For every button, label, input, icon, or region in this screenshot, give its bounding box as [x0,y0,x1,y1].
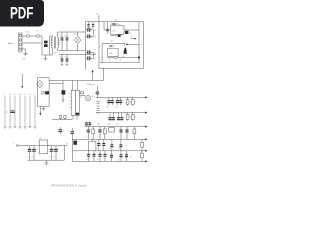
svg-text:10n: 10n [107,124,110,126]
wire mid rail b [49,83,63,85]
svg-text:24v: 24v [96,14,99,16]
svg-text:d1: d1 [86,159,88,161]
wire [73,115,77,119]
arrow tag [126,43,129,45]
regulator U4 [108,48,119,61]
wire inner ground rail [100,61,140,63]
svg-text:+12: +12 [130,36,133,38]
wire [49,36,51,55]
svg-text:C5: C5 [94,30,96,32]
svg-text:C7: C7 [94,52,96,54]
wire left vertical B [101,44,103,63]
svg-text:B2: B2 [109,59,111,61]
resistor R7 [80,92,84,94]
capacitor C5 [86,28,97,32]
svg-text:d3: d3 [118,159,120,161]
svg-text:c2: c2 [32,157,34,159]
PDF badge [0,0,44,27]
relay coil [45,91,49,94]
wire feed to B [138,22,140,63]
svg-text:Tx: Tx [24,94,26,96]
capacitor C22 [117,113,120,121]
capacitor rowCD e [120,151,123,162]
svg-text:+5: +5 [140,44,142,46]
earth ground [22,49,28,61]
wire rail out2 [96,112,145,114]
svg-text:C1: C1 [59,36,61,38]
capacitor rowBC b [102,139,105,150]
connector J1 [8,33,22,52]
capacitor rowBC c [110,139,113,150]
wire input [104,22,111,30]
wire output B low [107,57,139,59]
ground [42,106,46,111]
svg-text:24V: 24V [111,40,114,42]
capacitor C28 [50,146,54,161]
wire rail outC [72,150,145,152]
left bus arrow [21,74,23,88]
resistor R1 [42,92,45,94]
IC U1 [69,81,81,116]
arrow [145,96,147,98]
wire top rail [58,31,86,33]
svg-text:10n: 10n [116,124,119,126]
svg-text:4x: 4x [67,143,69,145]
svg-text:b3: b3 [118,148,120,150]
IC U3 [39,138,48,153]
bridge rectifier B1 [74,32,81,51]
regulator section outer box [99,22,144,69]
svg-text:d2: d2 [97,159,99,161]
svg-text:2N Relay 4s: 2N Relay 4s [87,84,95,86]
relay box K1 [38,78,50,107]
capacitor C10 [92,22,94,29]
resistor R8 [126,113,132,121]
resistor R9 [131,113,137,121]
wire bus [5,96,35,126]
resistor rowAB g [133,127,136,140]
label pin row [4,93,35,96]
buzzer BZ1 [80,95,94,101]
wire rail B [102,44,125,47]
capacitor C16 [107,97,110,105]
capacitor C3 [59,54,63,65]
regulator U2 [111,26,125,35]
capacitor C15 [6,111,15,114]
diode D3 [109,45,115,47]
capacitor C7 [86,50,97,54]
svg-text:b1: b1 [96,148,98,150]
capacitor rowAB e [119,127,122,140]
resistor R3 [64,116,66,120]
capacitor rowBC d [119,139,122,150]
capacitor C19 [119,97,122,105]
wire mid rail [49,80,103,82]
capacitor rowCD a [87,151,90,162]
capacitor rowCD d [104,151,107,162]
capacitor rowCD f [125,151,128,162]
resistor R4 [126,97,132,105]
arrow [145,112,147,114]
wire bottom rail [52,119,72,121]
svg-text:S1: S1 [37,30,39,32]
bus terminations [4,126,36,128]
svg-text:c4: c4 [54,157,56,159]
capacitor C13b [124,48,126,51]
net arrow up [92,70,94,81]
wire right vertical rail [85,22,87,70]
shield dashes [97,102,100,114]
arrow [145,138,147,140]
capacitor C30 feed [71,128,75,140]
svg-text:C4: C4 [64,56,66,58]
resistor rowAB d [103,127,106,140]
IC U5 [89,139,96,150]
transformer core [55,37,56,49]
wire [41,36,43,55]
svg-text:MPX/4010dP 8W C Inputs: MPX/4010dP 8W C Inputs [51,183,86,187]
svg-text:C8: C8 [94,58,96,60]
varistor RV1 [44,41,48,44]
capacitor C6 [86,30,97,39]
X-capacitor CX1 [44,44,48,47]
resistor R2 [59,116,61,120]
svg-text:10n: 10n [115,106,118,108]
wire top rail to box [86,21,100,23]
capacitor rowBC a [97,139,100,150]
capacitor C24 [59,127,66,134]
svg-text:b2: b2 [120,59,122,61]
capacitor C12 [125,31,132,35]
transformer TR1 secondary [58,32,60,51]
svg-text:5v: 5v [29,94,31,96]
capacitor C18 [116,97,119,105]
resistor rowCD g [141,151,144,162]
capacitor C4 [64,54,68,65]
svg-text:U3: U3 [40,138,42,140]
svg-text:7812: 7812 [112,31,116,33]
switch S1 [36,35,42,37]
svg-text:nc: nc [34,94,36,96]
capacitor C14 [92,86,99,98]
svg-text:Mains: Mains [8,43,13,45]
svg-text:b2: b2 [109,148,111,150]
capacitor C29 [54,146,58,161]
bridge rectifier B2 [36,80,43,88]
wire rail outD [72,160,145,162]
transformer TR1 primary [50,36,53,55]
capacitor C27 [32,146,36,161]
wire rail outA [84,126,145,128]
net arrow down [39,106,41,115]
capacitor C11 [106,22,108,35]
resistor rowAB b [92,127,95,140]
capacitor rowAB c [98,127,101,140]
wire [102,68,104,80]
capacitor C13 [123,50,127,58]
capacitor C17 [111,97,114,105]
svg-text:c3: c3 [49,157,51,159]
wire mid rail [58,50,86,52]
resistor rowBC e [141,139,144,150]
capacitor C2 [64,32,68,51]
capacitor C21 [112,113,115,121]
capacitor rowCD e2 [110,151,113,162]
svg-text:b4: b4 [125,145,127,147]
svg-text:SP: SP [92,96,94,98]
wire ground rail [59,53,96,55]
capacitor C9 [87,22,89,29]
wire bottom return [28,146,65,161]
svg-text:Cb: Cb [6,112,8,114]
capacitor C20 [108,113,111,121]
svg-text:C6: C6 [94,36,96,38]
resistor R6 inline [109,128,115,132]
ground [44,160,48,165]
svg-text:7805: 7805 [109,53,113,55]
svg-text:C2: C2 [64,36,66,38]
wire rail out1 [96,96,145,98]
fuse F1 [22,30,39,37]
svg-text:230v: 230v [54,53,58,55]
capacitor rowCD c [99,151,102,162]
arrow [145,160,147,162]
svg-text:10n: 10n [106,106,109,108]
svg-text:C3: C3 [59,56,61,58]
diode D2 [111,23,121,26]
wire [98,15,100,22]
svg-text:470: 470 [129,33,132,35]
svg-text:Vc: Vc [13,143,15,145]
svg-text:c1: c1 [27,157,29,159]
transistor Q1 [61,81,65,103]
arrow [145,126,147,128]
wire rail outB [72,138,145,140]
svg-text:r1: r1 [86,136,87,138]
wire left vertical [71,139,73,161]
svg-text:Gn: Gn [9,94,11,96]
resistor R5 [131,97,137,105]
wire output line A comps [111,35,122,37]
svg-text:Fuse: Fuse [26,31,30,33]
wire output B [129,43,139,45]
capacitor C1 [59,32,63,51]
wire main low rail [18,145,67,147]
capacitor C23 [120,113,123,121]
capacitor C26 [28,146,32,161]
wire output A [124,29,139,31]
ground [44,55,47,61]
wire [22,42,42,44]
svg-text:Rx: Rx [19,94,21,96]
svg-text:r2: r2 [97,136,98,138]
capacitor C33 [67,141,77,145]
svg-text:B1: B1 [74,34,76,36]
terminal Vdd [13,143,18,147]
capacitor rowAB f [125,127,128,140]
capacitor rowAB a [87,127,90,140]
capacitor C8 [86,52,97,60]
arrow [145,150,147,152]
output arrow +12V [130,36,137,40]
capacitor rowCD b [93,151,96,162]
svg-text:PDF: PDF [10,5,33,23]
capacitor C31 [85,121,88,126]
capacitor C32 [88,121,91,126]
svg-text:d4: d4 [130,156,132,158]
wire [42,54,50,56]
